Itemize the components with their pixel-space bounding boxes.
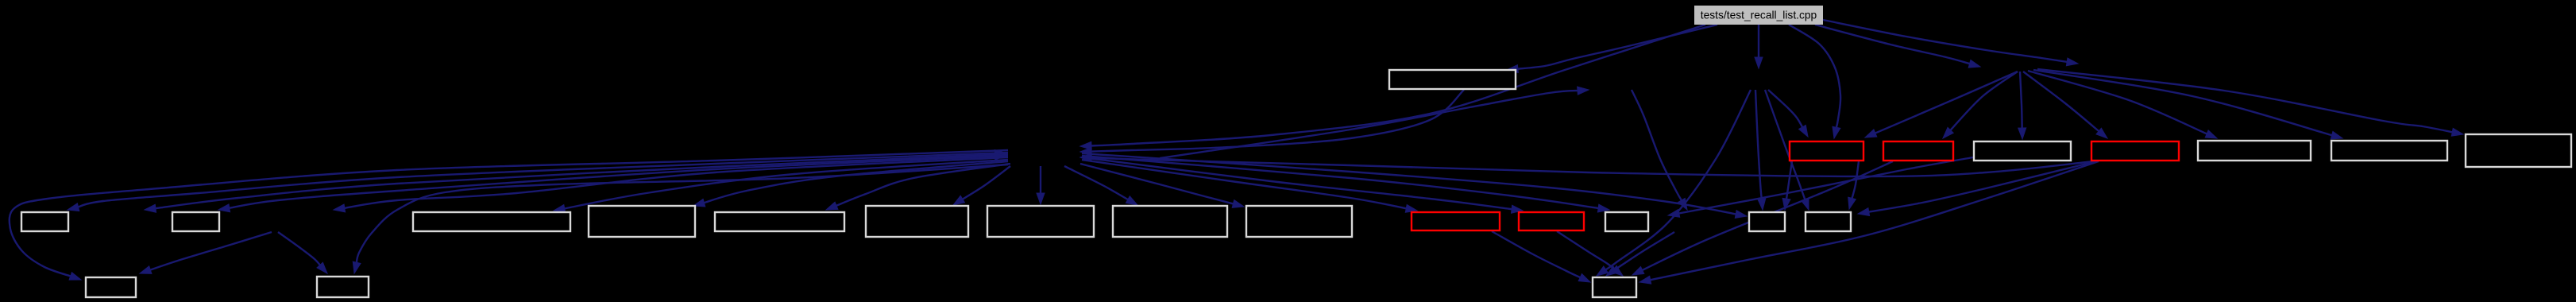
edge H to D13 <box>1082 153 1747 218</box>
edge H to B4 <box>1160 87 1589 158</box>
node C7 <box>2466 134 2571 167</box>
node D8 <box>1113 206 1227 237</box>
node D12 <box>1605 212 1648 231</box>
edge H to D11 <box>1082 157 1523 213</box>
edge N2 to E2 <box>278 232 327 273</box>
node D6 <box>866 206 968 237</box>
node D14 <box>1806 212 1851 231</box>
edge C3 to D12 <box>1668 157 1973 217</box>
edge H to E2 <box>353 165 1008 273</box>
edge H to E1 <box>10 150 1008 280</box>
node C3 <box>1974 141 2071 161</box>
node C2 <box>1883 141 1953 161</box>
arrowhead into H left a <box>994 149 1006 157</box>
edge C4 to E3 <box>1639 161 2099 284</box>
node C6 <box>2331 141 2447 161</box>
edge B5 to C1 <box>1768 90 1808 137</box>
edge B2 to C2 <box>1943 72 2018 138</box>
node D11 <box>1519 212 1584 230</box>
edge B2 to C1 <box>1865 72 2018 137</box>
edge B2 to C5 <box>2028 71 2217 138</box>
node D2 <box>172 212 219 231</box>
edge D11 to E3 <box>1557 231 1623 276</box>
node D13 <box>1749 212 1785 231</box>
edge H to D10 <box>1082 160 1417 212</box>
node tests/test_recall_list.cpp <box>1694 6 1823 25</box>
node D9 <box>1246 206 1352 237</box>
edge T to B2 <box>1815 25 1980 68</box>
edge H to D9 <box>1080 164 1244 207</box>
edge H to D4 <box>693 161 1008 207</box>
edge C4 to H <box>1080 154 2094 177</box>
edge H to D8 <box>1064 166 1137 205</box>
node E3 <box>1593 277 1636 297</box>
node B1 <box>1389 70 1516 89</box>
node C4 <box>2091 141 2179 161</box>
svg-text:tests/test_recall_list.cpp: tests/test_recall_list.cpp <box>1701 10 1817 21</box>
edge N3 to E3 <box>1606 232 1674 276</box>
edge H to D2 <box>218 156 1008 212</box>
edge B5 to E3 <box>1597 90 1751 276</box>
edge T to H <box>1080 25 1705 149</box>
node D10 <box>1412 212 1500 230</box>
node C5 <box>2198 141 2311 161</box>
node D4 <box>589 206 695 237</box>
edge C4 to D14 <box>1858 161 2096 216</box>
edge H to N1 <box>145 154 1008 212</box>
node E2 <box>317 277 369 297</box>
edge B5 to D13 <box>1755 90 1766 210</box>
edge H to N2 <box>334 157 1008 212</box>
edge B4 to N3 <box>1632 90 1687 210</box>
arrowhead into H left b <box>994 153 1006 161</box>
edge H to D3 <box>554 160 1008 212</box>
edge C1 to D14 <box>1848 161 1859 209</box>
edge B2 to C3 <box>2018 72 2026 139</box>
edge B2 to C4 <box>2023 72 2107 138</box>
edge T to B5 <box>1755 25 1763 68</box>
node D5 <box>715 212 844 231</box>
edge N2 to E1 <box>140 232 272 273</box>
edge C1 to D13 <box>1782 161 1792 210</box>
node D7 <box>987 206 1094 237</box>
edge T to C1 <box>1789 25 1840 138</box>
edge C2 to E3 <box>1632 161 1893 275</box>
edge H to D12 <box>1082 156 1609 212</box>
edge B2 to C7 <box>2037 69 2463 136</box>
edge H to D1 <box>68 153 1008 211</box>
edge T to B3 <box>1823 20 2078 66</box>
edge B1 to H <box>1080 90 1464 156</box>
edge B2 to C6 <box>2033 70 2342 139</box>
edge H to D7 <box>1037 166 1045 204</box>
edge B5 to D14 <box>1765 90 1809 210</box>
node D3 <box>413 212 570 231</box>
edge H to D6 <box>953 166 1010 205</box>
node E1 <box>86 277 136 297</box>
node D1 <box>21 212 68 231</box>
node C1 <box>1790 141 1863 161</box>
edge D10 to E3 <box>1492 231 1590 282</box>
edge H to D5 <box>826 164 1010 210</box>
edge T to B1 <box>1507 25 1717 73</box>
